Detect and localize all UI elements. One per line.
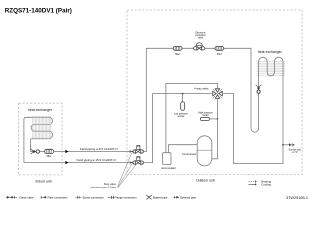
svg-text:ø 7.9: ø 7.9 bbox=[292, 152, 298, 154]
svg-text:filter: filter bbox=[175, 52, 180, 56]
svg-text:Brazed pipe: Brazed pipe bbox=[153, 196, 168, 200]
svg-text:filter: filter bbox=[47, 154, 52, 158]
svg-text:Outdoor unit: Outdoor unit bbox=[196, 178, 215, 182]
svg-text:Indoor unit: Indoor unit bbox=[35, 180, 51, 184]
svg-text:3TW29165-1: 3TW29165-1 bbox=[286, 196, 308, 200]
svg-text:: Cooling: : Cooling bbox=[260, 183, 272, 187]
svg-text:4-way valve: 4-way valve bbox=[194, 86, 209, 90]
svg-text:Screw connection: Screw connection bbox=[83, 196, 105, 200]
svg-text:filter: filter bbox=[217, 52, 222, 56]
svg-text:Field piping ø 15.9 C1220T-O: Field piping ø 15.9 C1220T-O bbox=[77, 158, 117, 162]
svg-text:Check valve: Check valve bbox=[19, 196, 34, 200]
svg-text:Flange connection: Flange connection bbox=[115, 196, 137, 200]
svg-text:Compressor: Compressor bbox=[182, 152, 197, 156]
svg-text:sensor: sensor bbox=[177, 115, 184, 118]
svg-text:Sphered pipe: Sphered pipe bbox=[180, 196, 196, 200]
svg-text:switch: switch bbox=[202, 114, 209, 117]
svg-text:Stop valve: Stop valve bbox=[104, 182, 117, 186]
svg-text:Flare connection: Flare connection bbox=[48, 196, 68, 200]
svg-text:valve: valve bbox=[198, 37, 204, 39]
svg-text:Accumulator: Accumulator bbox=[161, 166, 176, 170]
svg-text:RZQS71-140DV1 (Pair): RZQS71-140DV1 (Pair) bbox=[5, 8, 72, 15]
svg-text:heat exchanger: heat exchanger bbox=[28, 108, 53, 112]
svg-text:Field piping ø 9.5 C1220T-O: Field piping ø 9.5 C1220T-O bbox=[80, 147, 118, 151]
svg-text:(with service port ø 7.9 flare: (with service port ø 7.9 flare) bbox=[91, 186, 117, 189]
svg-text:heat exchanger: heat exchanger bbox=[258, 50, 283, 54]
